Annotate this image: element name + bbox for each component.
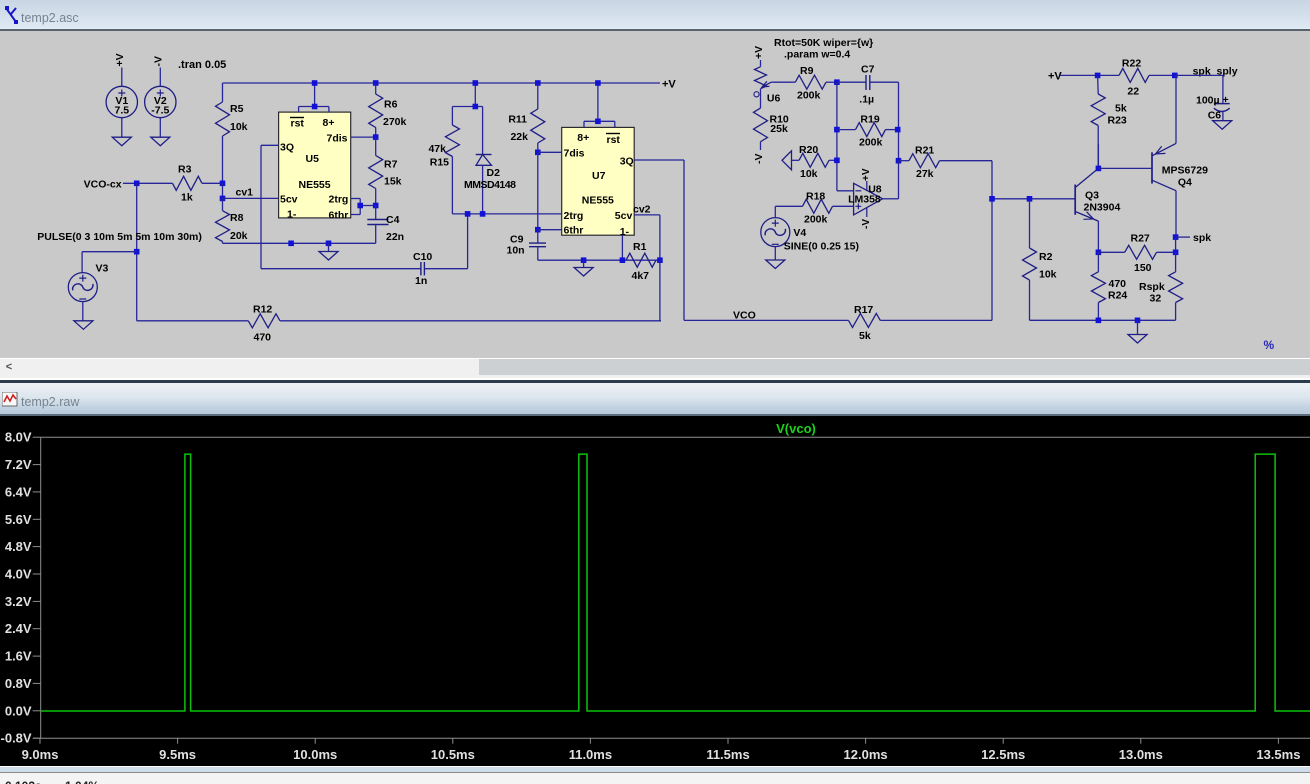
trace V(vco): [41, 454, 1310, 711]
junction: [373, 80, 379, 86]
svg-text:10k: 10k: [230, 121, 248, 133]
wire: [1060, 74, 1119, 76]
svg-text:R9: R9: [800, 65, 814, 77]
wire: [159, 118, 161, 138]
wire: [1098, 167, 1152, 169]
junction: [834, 79, 840, 85]
plot left axis: [40, 437, 42, 738]
x tick 9.0ms: [22, 738, 59, 762]
svg-text:R18: R18: [806, 191, 825, 203]
wire: [223, 197, 279, 199]
svg-text:4.8V: 4.8V: [5, 539, 32, 554]
svg-text:%: %: [1264, 338, 1275, 352]
svg-text:5cv: 5cv: [615, 210, 633, 222]
svg-text:13.5ms: 13.5ms: [1256, 747, 1300, 762]
svg-text:22k: 22k: [510, 131, 528, 143]
resistor R11: [508, 83, 544, 152]
percent cursor mark: [1264, 338, 1275, 352]
op-amp U5 NE555 box: [279, 112, 351, 221]
x tick 11.0ms: [569, 738, 612, 762]
y tick 0.0V: [5, 703, 41, 718]
svg-text:5k: 5k: [859, 330, 871, 342]
x tick 10.5ms: [431, 738, 475, 762]
flag -V (R10 bottom): [753, 154, 765, 165]
svg-text:1.6V: 1.6V: [5, 649, 32, 664]
wire: [774, 247, 776, 260]
flag -V (U8 bottom): [861, 219, 872, 229]
svg-text:R3: R3: [178, 164, 192, 176]
resistor R8: [216, 198, 248, 243]
svg-text:.tran 0.05: .tran 0.05: [178, 59, 226, 71]
y tick 6.4V: [5, 484, 41, 499]
x tick 9.5ms: [159, 738, 196, 762]
junction: [1135, 318, 1141, 324]
resistor R20: [792, 144, 837, 180]
svg-text:10k: 10k: [1039, 269, 1057, 281]
resistor R10: [754, 108, 789, 150]
voltage source V2: [145, 86, 176, 117]
capacitor C4: [367, 206, 404, 244]
wire: [1175, 75, 1177, 143]
svg-text:7.2V: 7.2V: [5, 457, 32, 472]
wire: [771, 81, 795, 83]
ground flag (R20 left): [782, 151, 792, 170]
resistor R2: [1023, 199, 1057, 320]
ground: [151, 137, 170, 146]
svg-text:R22: R22: [1122, 58, 1141, 70]
node +V label: [662, 79, 676, 91]
wire: [136, 183, 138, 320]
svg-text:27k: 27k: [916, 168, 934, 180]
svg-text:NE555: NE555: [582, 195, 614, 207]
wire: [82, 252, 137, 273]
wire: [775, 206, 802, 217]
junction: [473, 104, 479, 110]
wire U7 pin8/rst bracket: [584, 83, 615, 127]
svg-text:V4: V4: [793, 227, 806, 239]
svg-text:200k: 200k: [859, 137, 883, 149]
svg-text:VCO: VCO: [733, 310, 756, 322]
junction: [312, 80, 318, 86]
junction: [288, 241, 294, 247]
x tick 12.0ms: [844, 738, 888, 762]
svg-text:V(vco): V(vco): [776, 421, 816, 436]
svg-text:V3: V3: [96, 263, 109, 275]
svg-text:9.5ms: 9.5ms: [159, 747, 196, 762]
wire: [452, 213, 561, 215]
svg-text:10.5ms: 10.5ms: [431, 747, 475, 762]
resistor R7: [369, 137, 402, 205]
svg-text:2trg: 2trg: [564, 210, 584, 222]
svg-text:3Q: 3Q: [620, 156, 634, 168]
x tick 11.5ms: [706, 738, 749, 762]
junction: [134, 249, 140, 255]
svg-text:SINE(0 0.25 15): SINE(0 0.25 15): [784, 240, 859, 252]
ground: [1128, 320, 1147, 343]
svg-text:-V: -V: [753, 154, 765, 165]
svg-text:R1: R1: [633, 241, 647, 253]
ground: [1213, 121, 1232, 130]
svg-text:Rspk: Rspk: [1139, 281, 1165, 293]
wire: [261, 268, 421, 270]
resistor R17: [849, 304, 881, 342]
junction: [1096, 318, 1102, 324]
x tick 13.5ms: [1256, 738, 1300, 762]
y tick 0.8V: [5, 676, 41, 691]
svg-text:D2: D2: [487, 167, 501, 179]
wire: [223, 242, 376, 244]
svg-text:R5: R5: [230, 103, 244, 115]
resistor R21: [899, 145, 993, 181]
wire: [424, 214, 467, 269]
node cv1: [236, 187, 254, 199]
svg-text:6.4V: 6.4V: [5, 484, 32, 499]
svg-text:Q3: Q3: [1085, 190, 1099, 202]
svg-text:1k: 1k: [181, 192, 193, 204]
resistor R6: [369, 83, 407, 137]
svg-text:U5: U5: [306, 153, 320, 165]
directive Rtot param: [774, 37, 873, 61]
svg-text:10k: 10k: [800, 168, 818, 180]
svg-text:4k7: 4k7: [632, 270, 650, 282]
junction: [1096, 250, 1102, 256]
y tick 7.2V: [5, 457, 41, 472]
svg-text:R8: R8: [230, 212, 244, 224]
svg-text:+V: +V: [114, 53, 126, 66]
svg-text:R6: R6: [384, 99, 398, 111]
wire: [121, 118, 123, 138]
svg-text:200k: 200k: [804, 214, 828, 226]
ground: [74, 321, 93, 330]
svg-text:R15: R15: [430, 157, 449, 169]
svg-text:12.0ms: 12.0ms: [844, 747, 888, 762]
value PULSE: [37, 231, 202, 243]
resistor R19: [837, 114, 898, 149]
svg-text:NE555: NE555: [299, 179, 331, 191]
junction: [595, 119, 601, 125]
svg-text:R20: R20: [799, 144, 818, 156]
svg-text:U7: U7: [592, 170, 606, 182]
resistor Rspk: [1139, 252, 1183, 320]
node VCO-cx: [84, 179, 122, 191]
svg-text:-V: -V: [153, 56, 165, 67]
svg-text:C10: C10: [413, 251, 432, 263]
junction: [895, 127, 901, 133]
resistor R27: [1098, 233, 1175, 275]
junction: [834, 158, 840, 164]
wire: [1175, 237, 1177, 252]
junction: [535, 227, 541, 233]
capacitor C7: [837, 64, 899, 106]
ground: [319, 243, 338, 260]
svg-text:R12: R12: [253, 304, 272, 316]
svg-text:10.0ms: 10.0ms: [293, 747, 337, 762]
node VCO: [733, 310, 756, 322]
svg-text:5k: 5k: [1115, 103, 1127, 115]
svg-text:+V: +V: [753, 46, 765, 59]
diode D2 MMSD4148: [464, 107, 516, 214]
junction: [834, 127, 840, 133]
svg-text:-0.8V: -0.8V: [1, 731, 32, 746]
potentiometer U6: [754, 60, 781, 108]
ground: [112, 137, 131, 146]
transistor Q3 2N3904: [1075, 168, 1120, 221]
wire: [280, 320, 661, 322]
junction: [1027, 196, 1033, 202]
svg-text:2N3904: 2N3904: [1084, 202, 1121, 214]
svg-text:7dis: 7dis: [564, 148, 585, 160]
svg-text:+: +: [1223, 94, 1229, 106]
svg-text:2trg: 2trg: [329, 194, 349, 206]
svg-text:+V: +V: [1048, 71, 1062, 83]
node +V (right): [1048, 71, 1062, 83]
y tick -0.8V: [1, 731, 41, 746]
x tick 10.0ms: [293, 738, 337, 762]
svg-text:15k: 15k: [384, 176, 402, 188]
svg-text:R17: R17: [854, 304, 873, 316]
directive .tran 0.05: [178, 59, 226, 71]
svg-text:10n: 10n: [507, 245, 525, 257]
capacitor C10: [413, 251, 432, 287]
resistor R18: [803, 191, 854, 226]
wire: [898, 82, 900, 161]
svg-text:22n: 22n: [386, 231, 404, 243]
flag +V (V1 top): [114, 53, 126, 66]
transistor Q4 MPS6729: [1152, 143, 1208, 190]
svg-text:MMSD4148: MMSD4148: [464, 179, 516, 191]
junction: [595, 80, 601, 86]
x tick 13.0ms: [1119, 738, 1163, 762]
svg-text:0.0V: 0.0V: [5, 703, 32, 718]
wire U7 1-: [621, 235, 623, 260]
wire: [837, 190, 854, 192]
svg-text:8.0V: 8.0V: [5, 430, 32, 445]
resistor R23: [1091, 75, 1127, 168]
op-amp U8 LM358: [848, 181, 883, 217]
svg-text:-V: -V: [861, 219, 872, 229]
voltage source V1: [106, 86, 137, 117]
junction: [312, 104, 318, 110]
svg-text:.param w=0.4: .param w=0.4: [784, 49, 850, 61]
wire: [880, 161, 992, 321]
svg-text:4.0V: 4.0V: [5, 567, 32, 582]
junction: [1096, 166, 1102, 172]
junction: [581, 257, 587, 263]
wire: [1176, 236, 1190, 238]
svg-text:5cv: 5cv: [280, 194, 298, 206]
y tick 4.8V: [5, 539, 41, 554]
svg-text:150: 150: [1134, 262, 1152, 274]
svg-text:3Q: 3Q: [280, 142, 294, 154]
svg-text:13.0ms: 13.0ms: [1119, 747, 1163, 762]
capacitor C6 (polarized): [1196, 94, 1230, 122]
resistor R1: [626, 241, 660, 282]
wire: [452, 83, 482, 107]
junction: [535, 150, 541, 156]
junction: [1095, 73, 1101, 79]
svg-text:C7: C7: [861, 64, 875, 76]
svg-text:100µ: 100µ: [1196, 95, 1220, 107]
junction: [220, 196, 226, 202]
op-amp U7 NE555 box: [562, 127, 635, 238]
resistor R22: [1119, 58, 1175, 98]
svg-text:8+: 8+: [323, 117, 335, 129]
junction: [326, 241, 332, 247]
svg-text:6thr: 6thr: [329, 210, 349, 222]
svg-text:cv1: cv1: [236, 187, 254, 199]
y tick 8.0V: [5, 430, 41, 445]
resistor R15: [428, 107, 459, 214]
plot bottom axis: [33, 737, 1310, 739]
svg-text:7dis: 7dis: [327, 133, 348, 145]
resistor R12: [248, 304, 280, 344]
junction cv1 node: [220, 181, 226, 187]
svg-text:11.0ms: 11.0ms: [569, 747, 612, 762]
svg-text:470: 470: [254, 332, 272, 344]
wire: [159, 68, 161, 87]
svg-text:Rtot=50K wiper={w}: Rtot=50K wiper={w}: [774, 37, 873, 49]
node spk_sply: [1193, 66, 1238, 78]
svg-text:R11: R11: [508, 114, 527, 126]
flag -V (V2 top): [153, 56, 165, 67]
voltage source V4: [761, 218, 859, 253]
wire: [123, 182, 173, 184]
junction: [373, 134, 379, 140]
svg-text:MPS6729: MPS6729: [1162, 165, 1208, 177]
ground: [574, 260, 593, 276]
wire VCO bus: [684, 319, 849, 321]
svg-text:R2: R2: [1039, 251, 1053, 263]
wire: [538, 259, 660, 261]
resistor R9: [795, 65, 837, 102]
junction: [373, 203, 379, 209]
wire U7 5cv / node cv2: [633, 204, 660, 261]
junction: [896, 158, 902, 164]
wire: [1097, 221, 1099, 252]
wire: [883, 161, 899, 199]
svg-text:R24: R24: [1108, 290, 1127, 302]
wire: [538, 151, 562, 153]
wire: [1097, 144, 1099, 168]
svg-text:rst: rst: [607, 134, 621, 146]
svg-text:+V: +V: [861, 168, 872, 181]
junction: [465, 211, 471, 217]
wire: [82, 302, 84, 321]
node spk: [1193, 232, 1211, 244]
junction: [657, 257, 663, 263]
svg-text:25k: 25k: [770, 123, 788, 135]
svg-text:200k: 200k: [797, 90, 821, 102]
junction: [989, 196, 995, 202]
svg-text:R27: R27: [1131, 233, 1150, 245]
plot top border: [41, 436, 1310, 438]
wire U7 3Q out: [634, 160, 684, 320]
svg-text:Q4: Q4: [1178, 177, 1192, 189]
svg-text:C6: C6: [1208, 110, 1222, 122]
wire: [537, 152, 539, 229]
y tick 4.0V: [5, 567, 41, 582]
svg-text:20k: 20k: [230, 230, 248, 242]
wire U5 2trg/6thr bracket: [351, 199, 376, 215]
svg-text:rst: rst: [291, 118, 305, 130]
svg-text:22: 22: [1127, 86, 1139, 98]
flag +V (U6 top): [753, 46, 765, 59]
wire bottom bus: [137, 320, 249, 322]
y tick 1.6V: [5, 649, 41, 664]
junction: [620, 257, 626, 263]
svg-text:PULSE(0 3 10m 5m 5m 10m 30m): PULSE(0 3 10m 5m 5m 10m 30m): [37, 231, 202, 243]
svg-text:cv2: cv2: [633, 204, 651, 216]
ground: [766, 260, 785, 269]
junction spk node: [1173, 234, 1179, 240]
svg-text:2.4V: 2.4V: [5, 621, 32, 636]
junction: [473, 80, 479, 86]
capacitor C9: [507, 230, 547, 261]
svg-text:VCO-cx: VCO-cx: [84, 179, 122, 191]
junction: [1173, 250, 1179, 256]
junction: [480, 211, 486, 217]
svg-text:+V: +V: [662, 79, 676, 91]
wire: [121, 68, 123, 87]
wire: [836, 82, 838, 191]
resistor R24: [1091, 252, 1127, 320]
wire U5 7dis: [351, 136, 376, 138]
wire: [660, 260, 661, 321]
voltage source V3: [68, 263, 108, 302]
svg-text:spk: spk: [1193, 232, 1211, 244]
svg-text:270k: 270k: [383, 116, 407, 128]
junction: [134, 181, 140, 187]
y tick 5.6V: [5, 512, 41, 527]
svg-text:C4: C4: [386, 214, 400, 226]
resistor R3: [173, 164, 223, 204]
svg-text:R7: R7: [384, 159, 398, 171]
svg-text:LM358: LM358: [848, 193, 881, 205]
svg-text:R19: R19: [860, 114, 879, 126]
svg-text:1-: 1-: [620, 226, 630, 238]
svg-text:9.0ms: 9.0ms: [22, 747, 59, 762]
wire: [222, 183, 224, 198]
svg-text:8+: 8+: [577, 132, 589, 144]
svg-text:R23: R23: [1108, 115, 1127, 127]
svg-text:.1µ: .1µ: [859, 94, 874, 106]
svg-text:6thr: 6thr: [564, 225, 584, 237]
svg-text:11.5ms: 11.5ms: [706, 747, 749, 762]
x tick 12.5ms: [981, 738, 1025, 762]
wire: [992, 198, 1075, 200]
flag +V (U8 top): [861, 168, 872, 181]
junction: [1172, 73, 1178, 79]
svg-text:32: 32: [1150, 293, 1162, 305]
svg-text:47k: 47k: [428, 143, 446, 155]
svg-text:3.2V: 3.2V: [5, 594, 32, 609]
junction: [357, 203, 363, 209]
svg-text:7.5: 7.5: [114, 105, 129, 117]
wire U5 pin8/rst bracket: [299, 83, 329, 112]
y tick 2.4V: [5, 621, 41, 636]
junction: [535, 80, 541, 86]
wire +V top bus: [223, 82, 661, 84]
svg-text:U6: U6: [767, 93, 781, 105]
wire U5 3Q out: [261, 145, 279, 268]
svg-text:1-: 1-: [287, 209, 297, 221]
svg-text:470: 470: [1109, 278, 1127, 290]
svg-text:0.8V: 0.8V: [5, 676, 32, 691]
wire: [1175, 75, 1223, 103]
wire: [1175, 191, 1177, 237]
svg-text:R21: R21: [915, 145, 934, 157]
wire bottom right bus: [1030, 319, 1176, 321]
